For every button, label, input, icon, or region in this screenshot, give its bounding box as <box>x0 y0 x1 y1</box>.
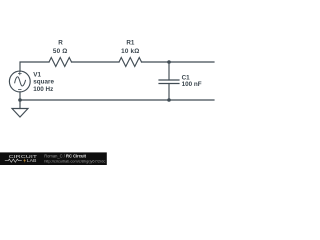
node junction top (C1 to top rail) <box>167 60 171 64</box>
V1 minus sign <box>19 89 22 91</box>
svg-text:LAB: LAB <box>27 158 37 163</box>
logo resistor zigzag <box>5 159 22 162</box>
svg-text:100 nF: 100 nF <box>182 81 202 88</box>
svg-text:R1: R1 <box>126 39 135 46</box>
ground triangle <box>12 109 28 118</box>
svg-text:50 Ω: 50 Ω <box>53 48 68 55</box>
watermark bar <box>0 152 107 165</box>
node junction bottom-left (V1/ground) <box>18 98 22 102</box>
wire between R and R1 <box>72 61 120 63</box>
svg-text:100 Hz: 100 Hz <box>33 86 53 93</box>
capacitor C1 top lead <box>168 62 170 80</box>
svg-text:V1: V1 <box>33 71 41 78</box>
svg-text:http://circuitlab.com/c/8hgrjy: http://circuitlab.com/c/8hgrjy67/2rdc <box>44 158 105 163</box>
wire from R1 to right end of top rail <box>142 61 215 63</box>
capacitor C1 plates <box>159 80 179 84</box>
ground lead <box>19 100 21 109</box>
svg-text:square: square <box>33 79 54 86</box>
svg-text:R: R <box>58 39 63 46</box>
resistor R1 <box>119 58 142 67</box>
bottom rail wire <box>20 99 214 101</box>
svg-text:10 kΩ: 10 kΩ <box>121 48 139 55</box>
V1 plus sign <box>18 72 21 75</box>
logo lightning bolt <box>23 158 26 162</box>
capacitor C1 bottom lead <box>168 84 170 101</box>
node junction bottom (C1 to bottom rail) <box>167 98 171 102</box>
V1 bottom lead <box>19 92 21 100</box>
resistor R <box>49 58 72 67</box>
voltage source V1 body <box>9 71 30 92</box>
voltage source V1 sine symbol <box>15 77 26 86</box>
wire riser from V1 top to top rail corner <box>20 62 49 71</box>
